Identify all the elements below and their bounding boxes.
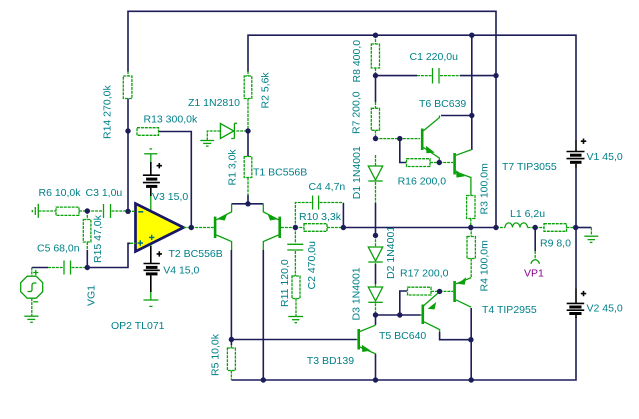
transistor T6: [422, 116, 439, 163]
zener Z1: [207, 99, 248, 141]
svg-text:R1 3,0k: R1 3,0k: [227, 149, 239, 186]
svg-text:R2 5,6k: R2 5,6k: [259, 72, 271, 109]
svg-text:OP2 TL071: OP2 TL071: [111, 320, 165, 332]
junction node T6 emitter/R16/T7 base: [437, 160, 442, 165]
svg-text:R14 270,0k: R14 270,0k: [102, 85, 114, 139]
wire R17 left corner: [400, 291, 407, 315]
junction node D3/T3 collector: [373, 312, 378, 317]
resistor R7: [371, 102, 379, 139]
junction node T4 collector/bottom rail: [469, 377, 474, 382]
resistor R14: [123, 71, 132, 99]
op-amp OP2: [128, 204, 191, 252]
svg-text:D2 1N4001: D2 1N4001: [385, 226, 397, 279]
junction node R16 tap: [397, 136, 402, 141]
wire output rail to bootstrap: [471, 227, 496, 229]
svg-text:VG1: VG1: [85, 285, 97, 306]
svg-text:R11 120,0: R11 120,0: [279, 259, 291, 307]
wire second top rail from R2 to V1: [248, 35, 576, 140]
resistor R8: [371, 35, 379, 75]
resistor R3: [467, 196, 475, 228]
junction node R17 tap: [397, 312, 402, 317]
wire T6/T7 collector vertical to top rail: [471, 35, 473, 115]
svg-text:C2 470,0u: C2 470,0u: [306, 241, 318, 290]
wire R5 top lead from VAS node: [230, 340, 232, 346]
wire T5 collector to T4 collector: [440, 332, 471, 340]
svg-text:V2 45,0: V2 45,0: [587, 303, 623, 315]
svg-text:D1 1N4001: D1 1N4001: [351, 146, 363, 199]
svg-text:T4 TIP2955: T4 TIP2955: [482, 304, 537, 316]
junction node C1/bootstrap: [493, 73, 498, 78]
resistor R13: [137, 128, 159, 136]
resistor R11: [292, 276, 300, 316]
wire noninverting path VG1 to op-amp: [32, 267, 48, 269]
junction node T3 emitter/bottom rail: [373, 377, 378, 382]
svg-text:R5 10,0k: R5 10,0k: [209, 333, 221, 376]
diode D2: [368, 235, 382, 264]
junction node bootstrap/output rail: [493, 225, 498, 230]
svg-text:R17 200,0: R17 200,0: [400, 268, 449, 280]
wire driver rail C4/R10 to output node: [343, 227, 470, 229]
resistor R9: [544, 224, 576, 232]
junction node Z1/R2/R1: [245, 128, 250, 133]
battery V3 with ground: [143, 149, 162, 210]
ground output right: [584, 228, 598, 243]
junction node T1 collector/bottom rail: [261, 377, 266, 382]
wire T4 collector down to bottom rail: [470, 308, 472, 380]
svg-text:T1 BC556B: T1 BC556B: [253, 167, 307, 179]
diode D1: [368, 155, 382, 203]
svg-text:R15 47,0k: R15 47,0k: [92, 214, 104, 263]
wire T3 collector vertical: [375, 315, 377, 325]
junction node L1/R9/VP1: [533, 225, 538, 230]
diode D3: [368, 284, 382, 315]
svg-text:R9 8,0: R9 8,0: [540, 238, 571, 250]
junction node diode chain: [373, 233, 378, 238]
svg-text:Z1 1N2810: Z1 1N2810: [188, 97, 240, 109]
wire diode chain upper navy: [375, 77, 377, 102]
wire output node to V2: [575, 228, 577, 289]
junction node top rail/T6 T7 collectors: [469, 33, 474, 38]
wire feedback node down to inverting input node: [127, 131, 129, 211]
source VG1: [21, 268, 43, 323]
junction node C4/R10 output: [341, 225, 346, 230]
wire top rail from R14 to bootstrap corner: [128, 11, 496, 227]
inductor L1: [496, 223, 528, 228]
transistor T7: [439, 150, 472, 196]
capacitor C3: [87, 204, 128, 218]
wire R13 right to op-amp output node: [159, 132, 192, 228]
resistor R4: [467, 228, 475, 278]
svg-text:R13 300,0k: R13 300,0k: [144, 114, 198, 126]
wire T7 collector vertical: [471, 116, 473, 151]
svg-text:C3 1,0u: C3 1,0u: [86, 187, 123, 199]
svg-text:V1 45,0: V1 45,0: [587, 151, 623, 163]
resistor R2: [244, 71, 252, 99]
wire C4 right corner down: [342, 203, 344, 228]
svg-text:VP1: VP1: [524, 268, 544, 280]
resistor R5: [227, 345, 235, 380]
wire R14 bottom to feedback node: [127, 99, 129, 132]
resistor R10: [295, 224, 343, 232]
wire C5 node to op-amp plus corner: [87, 243, 130, 267]
junction node T5/T4 collectors: [468, 337, 473, 342]
junction node C5/R15/op-amp input: [85, 265, 90, 270]
transistor T1: [263, 204, 295, 250]
junction node R7/D1/T6 base: [373, 136, 378, 141]
wire D1 cathode down crossing driver rail: [375, 203, 377, 235]
transistor T2: [191, 204, 231, 250]
battery V1: [567, 139, 587, 169]
svg-text:L1 6,2u: L1 6,2u: [510, 208, 545, 220]
junction node R14/R13 feedback: [125, 128, 130, 133]
junction node T6/T7 collector: [469, 113, 474, 118]
svg-text:T5 BC640: T5 BC640: [379, 330, 426, 342]
svg-text:T6 BC639: T6 BC639: [419, 98, 466, 110]
capacitor C2: [287, 228, 303, 277]
svg-text:R10 3,3k: R10 3,3k: [299, 211, 342, 223]
transistor T3: [357, 325, 376, 354]
junction node T2 collector/R5/T3 base rail: [229, 337, 234, 342]
wire C1 row left part: [376, 75, 418, 77]
svg-text:C5 68,0n: C5 68,0n: [37, 243, 80, 255]
svg-text:C1 220,0u: C1 220,0u: [410, 51, 459, 63]
wire R15 bottom navy part: [86, 250, 88, 268]
svg-text:C4 4,7n: C4 4,7n: [309, 181, 346, 193]
wire bottom rail: [231, 317, 576, 380]
resistor R6: [56, 207, 87, 215]
svg-text:R4 100,0m: R4 100,0m: [479, 240, 491, 292]
wire T6 base: [376, 138, 421, 140]
wire VAS rail to T3 base: [231, 339, 356, 341]
resistor R17: [408, 287, 440, 295]
wire V1 to output node: [575, 168, 577, 228]
transistor T4: [440, 277, 472, 307]
probe VP1: [531, 251, 540, 264]
resistor R1: [244, 157, 252, 204]
wire T1 collector down to bottom rail: [262, 250, 264, 380]
svg-text:R8 400,0: R8 400,0: [351, 40, 363, 83]
junction node R8/C1/R7: [373, 73, 378, 78]
wire R16 left corner: [400, 139, 406, 163]
junction node output R3/R4: [468, 225, 473, 230]
svg-text:R3 100,0m: R3 100,0m: [478, 163, 490, 215]
junction node R17/T5 emitter/T4 base: [437, 289, 442, 294]
junction node R8 top rail: [373, 33, 378, 38]
junction node R9/V1/V2/ground: [573, 225, 578, 230]
wire T3 emitter down: [375, 354, 377, 380]
svg-text:T3 BD139: T3 BD139: [307, 355, 354, 367]
capacitor C4: [295, 196, 343, 228]
wire D3 node to T5 base: [376, 314, 421, 316]
wire zener node to R1: [247, 131, 249, 157]
battery V4 with ground: [144, 245, 163, 306]
transistor T5: [421, 292, 440, 332]
svg-text:V3 15,0: V3 15,0: [152, 191, 188, 203]
svg-text:R7 200,0: R7 200,0: [351, 91, 363, 134]
resistor R15: [83, 211, 91, 250]
wire T2 collector down to VAS node: [230, 250, 232, 340]
battery V2: [567, 289, 587, 319]
svg-text:V4 15,0: V4 15,0: [163, 265, 199, 277]
wire T6 collector horizontal: [441, 115, 472, 117]
capacitor C5: [48, 261, 87, 275]
wire output node to ground stub: [576, 227, 592, 229]
wire VP1 probe upper: [534, 228, 536, 252]
wire L1 node to R9: [528, 227, 545, 229]
junction node op-amp output: [189, 225, 194, 230]
wire emitter rail of input pair: [232, 203, 264, 205]
junction node R6/C3/R15: [85, 208, 90, 213]
ground zener: [200, 141, 214, 147]
capacitor C1: [417, 68, 496, 84]
svg-text:R16 200,0: R16 200,0: [398, 176, 447, 188]
junction node T1 base/R10/C4/C2: [293, 225, 298, 230]
svg-text:T2 BC556B: T2 BC556B: [169, 248, 223, 260]
junction node inverting input: [125, 209, 130, 214]
wire D2 cathode to D3 anode: [375, 264, 377, 284]
svg-text:T7 TIP3055: T7 TIP3055: [502, 161, 557, 173]
ground input left: [32, 204, 56, 218]
ground R11: [288, 317, 303, 323]
svg-text:D3 1N4001: D3 1N4001: [351, 267, 363, 320]
resistor R16: [407, 159, 440, 167]
svg-text:R6 10,0k: R6 10,0k: [39, 187, 82, 199]
junction node emitter pair: [245, 201, 250, 206]
